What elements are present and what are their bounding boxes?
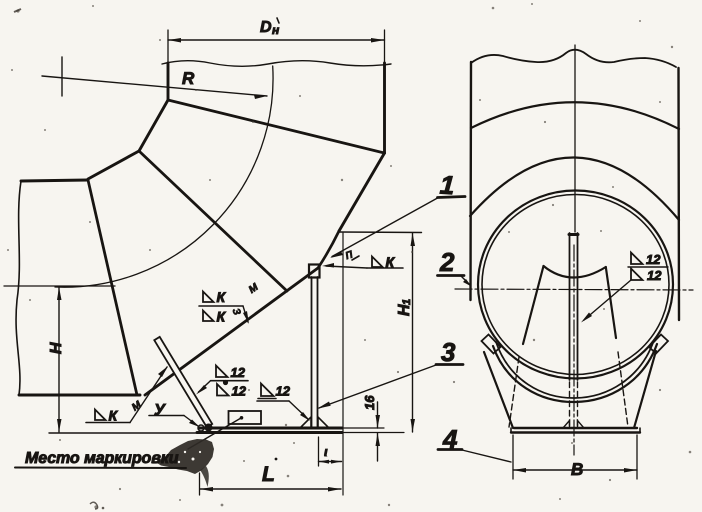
stray mark top-left corner: [14, 9, 21, 12]
l left arrowhead: [319, 460, 330, 464]
dimension D_n line: [168, 39, 385, 41]
pipe axis arc (radius R): [55, 66, 273, 287]
svg-text:12: 12: [646, 252, 661, 267]
right view: trapezoid front plate right edge: [634, 351, 656, 428]
H bottom arrowhead: [57, 419, 62, 432]
elbow left break edge: [16, 181, 21, 395]
weld symbol d12/d12: reference line with dot: [211, 380, 249, 382]
svg-text:12: 12: [647, 268, 662, 283]
right view: lower miter arc 2: [470, 157, 679, 220]
U arrowhead: [189, 420, 200, 428]
right view: pipe inner circle: [482, 195, 669, 375]
weld symbol dK/dK upper: bottom triangle: [203, 311, 214, 322]
right view: longitudinal rib hidden below saddle: [569, 382, 571, 427]
H1 top arrowhead: [411, 233, 416, 246]
svg-text:H: H: [48, 342, 65, 354]
gusset right of post: [318, 417, 329, 428]
B left arrowhead: [513, 468, 526, 473]
break line (wavy) at elbow top: [162, 61, 391, 67]
svg-text:L: L: [262, 463, 275, 486]
dimension L line: [200, 488, 341, 490]
right view: longitudinal rib top cap: [569, 233, 578, 236]
miter weld line M2: [139, 151, 287, 291]
weld symbol dK bottom-left: reference line: [86, 422, 130, 424]
svg-text:2: 2: [439, 247, 455, 277]
svg-text:1: 1: [401, 299, 413, 305]
B right arrowhead: [624, 468, 637, 473]
D_n right arrowhead: [371, 38, 385, 43]
ink blot at marking place: [157, 439, 214, 474]
right view: cradle left end cap: [482, 335, 501, 354]
diagonal brace strut: [154, 337, 212, 427]
svg-text:К: К: [217, 309, 227, 325]
right view: transverse rib hidden edge right: [618, 352, 628, 427]
weld symbol d12 underlined: triangle: [261, 384, 274, 397]
16 upper arrowhead: [376, 415, 381, 428]
dimension H1 line: [412, 233, 414, 432]
label 4 leader to saddle base plate: [462, 450, 511, 462]
right view: upper miter arc 1: [471, 102, 679, 129]
svg-text:В: В: [571, 460, 583, 479]
dimension 16 line upper part: [377, 402, 379, 428]
weld symbol dK near post: reference line: [367, 267, 403, 269]
right view: base plate top line: [514, 427, 637, 429]
weld symbol dK/dK upper: reference line: [199, 305, 243, 307]
svg-text:ι: ι: [324, 444, 328, 459]
small tick under n: [352, 256, 359, 260]
gusset left of post: [300, 417, 311, 428]
right view: trapezoid front plate left edge: [484, 352, 513, 428]
right view: pipe silhouette right edge: [677, 68, 680, 320]
axis tangent / H top extension line: [4, 285, 115, 287]
arrowhead at post top: [322, 263, 334, 268]
elbow inner contour (168,100)-(139,151): [139, 100, 168, 151]
right view: transverse rib plate left edge: [523, 266, 544, 344]
l right arrowhead: [331, 460, 342, 464]
R arrowhead: [254, 95, 267, 99]
label 2 underline: [438, 274, 465, 277]
right view: pipe silhouette left edge: [469, 62, 472, 300]
elbow inner contour horizontal (88,180)-(21,181): [21, 180, 88, 181]
right view: pipe outer circle: [478, 191, 673, 379]
right view: base plate right end: [639, 428, 641, 433]
right view: transverse rib plate right edge: [606, 267, 616, 338]
right view: dimension B line: [513, 469, 637, 471]
label 3 leader to post: [319, 365, 436, 408]
right view: gussets at rib foot: [563, 421, 570, 429]
radius centre cross vertical tick: [61, 57, 63, 96]
right view weld symbol d12/d12: top triangle: [631, 253, 643, 265]
weld symbol d12 underlined: leader to post foot: [289, 401, 308, 419]
right view: saddle cradle outer arc: [493, 344, 657, 402]
base plate top thin extension right: [342, 427, 384, 429]
l left extension line: [318, 437, 320, 466]
right view: transverse rib hidden edge left: [509, 357, 519, 427]
elbow outer edge segment A: [339, 153, 385, 231]
label 2 leader to pipe edge: [461, 276, 470, 285]
leader from blob to marking plate with end dot: [188, 418, 241, 449]
long vertical extension line at plate right end: [342, 233, 344, 495]
base plate bottom thin extension right: [342, 432, 404, 434]
elbow outer surface arc piece near post: [318, 231, 339, 268]
label 3 underline: [436, 363, 463, 366]
label 1 arrowhead: [330, 251, 343, 258]
base plate top line: [199, 427, 342, 430]
svg-text:12: 12: [232, 384, 247, 399]
U reference line: [149, 415, 184, 417]
svg-text:16: 16: [362, 395, 377, 410]
right view weld leader arrowhead: [581, 313, 592, 323]
post top plate: [309, 265, 320, 278]
arrowhead at brace edge: [196, 385, 207, 395]
weld symbol dK bottom-left: leader to brace: [130, 367, 167, 423]
svg-text:К: К: [217, 289, 227, 305]
svg-text:R: R: [182, 69, 195, 88]
label 3 arrowhead: [317, 402, 331, 409]
svg-text:К: К: [386, 254, 396, 270]
L right arrowhead: [328, 487, 341, 492]
dimension H1 top extension: [339, 231, 422, 234]
miter weld line M3: [88, 180, 137, 395]
D_n left arrowhead: [168, 38, 181, 43]
elbow top stub left edge: [167, 63, 170, 100]
right view: vertical centerline: [574, 45, 576, 232]
L left extension line: [199, 473, 201, 495]
dimension 16 line lower part: [377, 433, 379, 461]
label 2 arrowhead: [463, 279, 472, 287]
arrowhead at post foot: [300, 412, 310, 421]
right view: horizontal centerline: [455, 289, 693, 290]
elbow outer edge segment B: [145, 268, 318, 395]
weld symbol dK/dK upper: leader to weld M2/M3: [243, 306, 248, 322]
label 1 leader to post top: [332, 198, 438, 257]
svg-text:D: D: [260, 19, 272, 36]
weld symbol dK near post: leader to post top: [326, 266, 367, 268]
R radius line: [42, 76, 267, 96]
weld symbol d12 underlined: underline bar: [258, 398, 276, 400]
right view weld leader to rib: [584, 280, 631, 320]
label 1 underline: [438, 197, 466, 198]
right view: longitudinal rib left edge: [569, 233, 571, 380]
right view: base plate bottom line: [511, 431, 640, 433]
right view: dimension B extension lines: [512, 435, 514, 479]
U leader: [184, 416, 198, 427]
svg-text:12: 12: [231, 365, 246, 380]
right view: break line (wavy) top: [471, 50, 676, 67]
dimension D_n extension lines: [167, 30, 169, 63]
H top arrowhead: [57, 287, 62, 300]
weld symbol dK bottom-left: triangle: [95, 410, 106, 421]
H1 bottom arrowhead: [411, 419, 416, 432]
H baseline extension to the left: [49, 432, 197, 434]
right view weld symbol d12/d12: bottom triangle: [631, 269, 643, 281]
right view: saddle cradle inner arc: [496, 340, 654, 398]
elbow inner contour (139,151)-(88,179): [88, 151, 139, 179]
weld symbol d12/d12: leader to brace edge: [199, 381, 211, 392]
svg-text:3: 3: [441, 337, 456, 367]
weld symbol d12 underlined: reference line: [257, 400, 289, 402]
stray pencil mark bottom edge: [90, 502, 98, 509]
svg-text:К: К: [109, 408, 119, 424]
underline of marking text: [15, 467, 186, 470]
weld symbol dK near post: triangle: [372, 257, 383, 268]
base plate bottom line: [197, 431, 342, 434]
weld symbol d12/d12: bottom triangle: [217, 384, 229, 396]
weld leader arrowhead: [243, 311, 249, 324]
right view: base plate left end: [510, 428, 512, 433]
16 lower arrowhead: [376, 433, 381, 446]
L left arrowhead: [200, 487, 213, 492]
marking plate rectangle: [229, 411, 262, 424]
weld symbol d12/d12 with dot: top triangle: [216, 366, 228, 378]
miter weld line M1: [168, 100, 385, 153]
weld symbol dK/dK upper: top triangle: [203, 292, 214, 303]
right view weld symbol: reference line: [628, 266, 668, 268]
dimension l line: [319, 461, 342, 463]
right view: longitudinal rib right edge: [577, 233, 579, 380]
svg-text:12: 12: [276, 384, 291, 399]
svg-text:У: У: [154, 402, 166, 419]
label 4 underline: [438, 448, 462, 451]
right view: transverse rib top curved cut: [544, 266, 606, 278]
svg-text:н: н: [272, 23, 280, 37]
dimension H line: [58, 287, 60, 432]
elbow top stub right edge: [383, 63, 386, 153]
support post (double line): [311, 277, 313, 428]
svg-text:Место маркировки: Место маркировки: [25, 450, 179, 467]
elbow bottom stub lower edge: [19, 394, 140, 397]
arrowhead at brace: [158, 366, 168, 377]
brace foot blob: [205, 424, 213, 432]
right view: cradle right end cap: [649, 335, 668, 354]
